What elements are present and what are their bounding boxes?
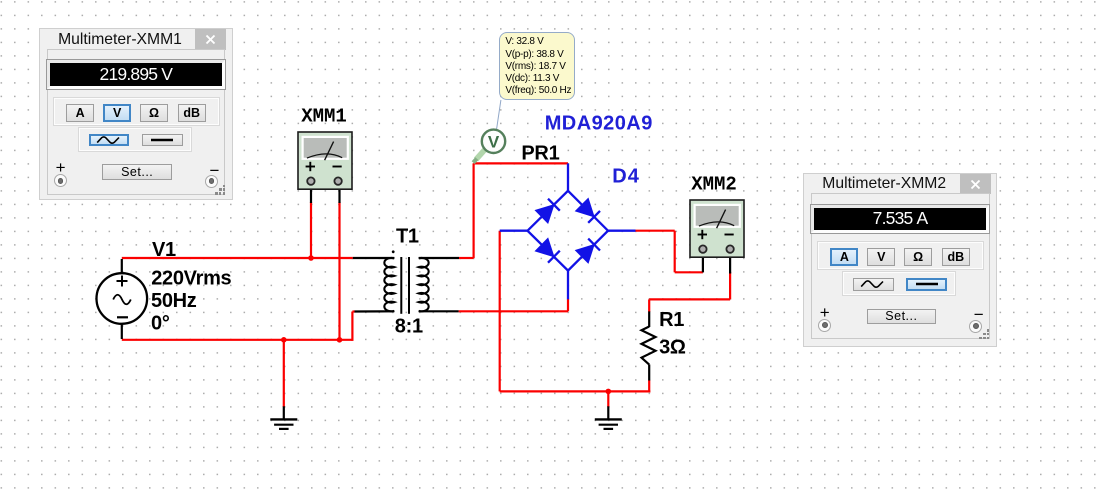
svg-text:50Hz: 50Hz bbox=[151, 290, 197, 312]
svg-text:MDA920A9: MDA920A9 bbox=[545, 113, 653, 135]
svg-text:PR1: PR1 bbox=[521, 143, 559, 165]
svg-text:R1: R1 bbox=[659, 309, 684, 331]
svg-text:D4: D4 bbox=[612, 166, 640, 188]
svg-text:XMM2: XMM2 bbox=[691, 173, 737, 195]
svg-text:T1: T1 bbox=[396, 226, 419, 248]
svg-text:3Ω: 3Ω bbox=[659, 337, 686, 359]
svg-text:220Vrms: 220Vrms bbox=[151, 268, 231, 290]
svg-text:0°: 0° bbox=[151, 312, 170, 334]
svg-text:XMM1: XMM1 bbox=[301, 105, 347, 127]
svg-text:V1: V1 bbox=[152, 239, 176, 261]
svg-text:V: V bbox=[488, 133, 500, 152]
svg-text:8:1: 8:1 bbox=[395, 315, 423, 337]
